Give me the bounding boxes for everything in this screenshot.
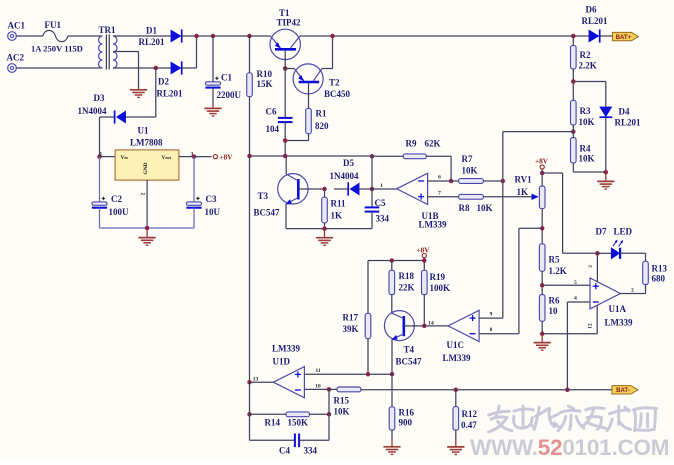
label AC2 xyxy=(7,52,25,62)
wire D2 cathode up to top rail xyxy=(196,36,198,68)
pin 1 xyxy=(99,151,102,157)
wire AC2 to TR1 xyxy=(16,67,102,69)
wire R9 right xyxy=(426,155,451,157)
junction (T3 base node) xyxy=(322,187,327,192)
svg-text:R3: R3 xyxy=(580,106,591,116)
label U1 xyxy=(138,125,149,135)
svg-text:R8: R8 xyxy=(459,203,470,213)
wire D6 to BAT+ xyxy=(601,35,613,37)
label R11 xyxy=(331,199,347,209)
label RL201 xyxy=(582,16,609,26)
wire down to D3 xyxy=(155,68,157,117)
pin 2 xyxy=(631,287,634,293)
svg-text:T3: T3 xyxy=(258,191,269,201)
junction (T4 base / U1C out) xyxy=(422,324,427,329)
wire R11 bottom xyxy=(324,223,326,229)
svg-text:BC450: BC450 xyxy=(324,89,351,99)
wire T4 base xyxy=(404,325,425,327)
wire T3 emitter down xyxy=(285,204,287,229)
resistor R15 xyxy=(337,387,361,392)
label 1K xyxy=(517,187,529,197)
wire center tap down to ground xyxy=(138,52,140,89)
wire T4 emitter down xyxy=(391,339,393,374)
transistor T4 base bar xyxy=(402,316,405,336)
label R7 xyxy=(462,154,473,164)
junction (R9 tap on 8V rail) xyxy=(370,154,375,159)
wire U1B in+ (pin7) xyxy=(428,196,459,198)
junction (BAT- node) xyxy=(565,388,570,393)
pin 11 xyxy=(315,368,320,374)
wire down to C3 xyxy=(193,157,195,203)
pin 14 xyxy=(428,320,434,326)
svg-text:LM339: LM339 xyxy=(605,318,633,328)
wire C2 to gnd rail xyxy=(99,208,101,229)
label BC547 xyxy=(396,357,423,367)
label R12 xyxy=(462,409,478,419)
label R14 xyxy=(265,417,281,427)
resistor R10 xyxy=(247,73,253,97)
svg-text:R7: R7 xyxy=(462,154,473,164)
label 334 xyxy=(376,214,390,224)
label T2 xyxy=(329,78,340,88)
label 10 xyxy=(549,306,559,316)
label U1C xyxy=(447,340,465,350)
junction (U1 output node) xyxy=(192,154,197,159)
svg-text:1: 1 xyxy=(99,151,102,157)
wire down to R17 xyxy=(367,261,369,314)
label FU1 xyxy=(45,20,62,30)
junction (D2 to top rail) xyxy=(194,34,199,39)
resistor R1 xyxy=(306,108,312,133)
junction (R18 top) xyxy=(390,258,395,263)
svg-text:62K: 62K xyxy=(425,139,441,149)
label R16 xyxy=(399,407,415,417)
junction (U1 ground) xyxy=(145,226,150,231)
wire U1D in+ (pin11) to T4 emitter xyxy=(305,373,392,375)
ground (T3/R11/C5) xyxy=(316,229,333,245)
wire R13 top xyxy=(645,253,647,261)
svg-text:1N4004: 1N4004 xyxy=(330,171,359,181)
wire T1 base down xyxy=(284,51,286,69)
wire supply node to LED xyxy=(563,252,598,254)
svg-text:LM339: LM339 xyxy=(419,219,447,229)
svg-text:R9: R9 xyxy=(406,139,417,149)
label T3 xyxy=(258,191,269,201)
wire R4 to ground xyxy=(573,171,606,173)
label U1D xyxy=(273,356,291,366)
svg-text:10K: 10K xyxy=(462,166,478,176)
wire R15 left node down xyxy=(328,389,330,440)
wire divider sense bus xyxy=(502,132,504,319)
wire RV1 bottom left xyxy=(519,227,542,229)
label C4 xyxy=(279,445,290,455)
label 62K xyxy=(425,139,441,149)
svg-text:1: 1 xyxy=(380,183,383,189)
wire to +8V label xyxy=(194,156,211,158)
wire T3 emitter ground rail xyxy=(286,228,372,230)
wire R5 to R6 xyxy=(541,271,543,294)
label TR1 xyxy=(99,25,117,35)
svg-text:+8V: +8V xyxy=(220,153,234,161)
resistor R13 xyxy=(643,261,649,284)
label 680 xyxy=(652,273,666,283)
capacitor C5 334 xyxy=(365,207,380,211)
wire AC1 to FU1 xyxy=(16,35,42,37)
ground (U1/C2/C3) xyxy=(139,229,156,245)
op-amp U1B LM339 xyxy=(397,173,428,204)
label 10K xyxy=(579,117,595,127)
svg-text:RV1: RV1 xyxy=(515,174,533,184)
pin 10 xyxy=(315,383,321,389)
svg-text:15K: 15K xyxy=(257,79,273,89)
svg-text:R1: R1 xyxy=(316,109,327,119)
svg-text:U1D: U1D xyxy=(273,356,291,366)
wire to R15 xyxy=(329,388,337,390)
junction (R19 top) xyxy=(422,258,427,263)
wire divider to U1A in+ xyxy=(542,284,590,286)
label LM339 xyxy=(605,318,633,328)
wire R8 to RV1 wiper with arrow xyxy=(483,194,538,200)
transistor T2 emitter lead xyxy=(294,69,304,82)
junction (C1 on top rail) xyxy=(211,34,216,39)
wire 8V rail to R9 xyxy=(372,155,403,157)
label LM339 xyxy=(443,353,471,363)
svg-text:1A 250V 115D: 1A 250V 115D xyxy=(31,44,83,54)
svg-text:LED: LED xyxy=(614,226,633,236)
label C1 xyxy=(221,72,232,82)
pin 13 xyxy=(253,376,259,382)
label LM339 xyxy=(272,343,300,353)
wire to U1 Vin xyxy=(100,156,116,158)
wire T3 collector up xyxy=(285,156,287,174)
wire top rail T1 to D6 xyxy=(300,35,589,37)
label 2.2K xyxy=(579,60,597,70)
svg-text:D6: D6 xyxy=(586,4,597,14)
wire C6 to 8V rail xyxy=(284,122,286,156)
resistor R3 xyxy=(571,100,577,125)
wire C4 left xyxy=(250,439,295,441)
wire U1D in- (pin10) xyxy=(305,388,329,390)
label C3 xyxy=(206,194,217,204)
wire U1 GND pin down xyxy=(146,180,148,228)
junction (RV1 top node) xyxy=(540,171,545,176)
svg-text:TIP42: TIP42 xyxy=(277,17,302,27)
label R18 xyxy=(399,271,415,281)
svg-text:100K: 100K xyxy=(430,283,451,293)
label RL201 xyxy=(615,118,642,128)
wire C3 to gnd rail xyxy=(193,208,195,229)
wire R16 bottom xyxy=(391,430,393,439)
label 150K xyxy=(288,417,309,427)
svg-text:TR1: TR1 xyxy=(99,25,117,35)
+8V net label (RV1) xyxy=(535,157,549,169)
svg-text:0.47: 0.47 xyxy=(461,420,477,430)
svg-text:1K: 1K xyxy=(331,210,343,220)
label R1 xyxy=(316,109,327,119)
transistor T2 base bar xyxy=(299,81,320,84)
svg-text:R11: R11 xyxy=(331,199,347,209)
svg-text:9: 9 xyxy=(490,311,493,317)
label 2200U xyxy=(217,90,242,100)
label 10U xyxy=(205,207,221,217)
transformer TR1 secondary winding xyxy=(113,36,117,68)
svg-text:BAT+: BAT+ xyxy=(616,35,632,41)
junction (T4 emitter node) xyxy=(390,372,395,377)
label U1A xyxy=(609,304,627,314)
wire U1A Vcc (pin3) xyxy=(596,253,598,282)
junction (T3 collector on 8V rail) xyxy=(283,154,288,159)
junction (R14/C4 right node) xyxy=(327,412,332,417)
svg-text:2200U: 2200U xyxy=(217,90,242,100)
resistor R7 xyxy=(459,179,484,184)
junction (U1A Vcc / LED anode) xyxy=(595,251,600,256)
svg-text:10K: 10K xyxy=(579,117,595,127)
junction (RV1 bottom / U1C in-) xyxy=(540,226,545,231)
label R5 xyxy=(549,254,560,264)
svg-text:R19: R19 xyxy=(430,272,446,282)
svg-text:R15: R15 xyxy=(334,395,350,405)
svg-text:D3: D3 xyxy=(94,93,105,103)
svg-text:T2: T2 xyxy=(329,78,340,88)
ground (R16) xyxy=(383,438,400,454)
label RL201 xyxy=(139,37,166,47)
label 10K xyxy=(334,406,350,416)
resistor R14 xyxy=(286,412,310,417)
svg-text:100U: 100U xyxy=(109,207,130,217)
label T4 xyxy=(404,344,415,354)
wire T2 collector to top rail xyxy=(332,36,334,69)
label D5 xyxy=(343,158,354,168)
svg-text:R10: R10 xyxy=(257,69,273,79)
label R2 xyxy=(580,50,591,60)
svg-text:C1: C1 xyxy=(221,72,232,82)
wire +8V to RV1 xyxy=(541,169,543,186)
label C2 xyxy=(111,194,122,204)
svg-text:C5: C5 xyxy=(375,198,386,208)
label RV1 xyxy=(515,174,533,184)
wire U1A gnd (pin12) xyxy=(596,306,598,334)
label 100U xyxy=(109,207,130,217)
label R13 xyxy=(652,263,668,273)
transistor T2 BC450 body xyxy=(293,64,323,94)
label 820 xyxy=(315,121,329,131)
transformer TR1 primary winding xyxy=(99,36,103,68)
wire R4 bottom xyxy=(572,163,574,172)
resistor R11 xyxy=(322,197,328,223)
wire U1D output xyxy=(250,381,274,383)
label C6 xyxy=(266,106,277,116)
svg-text:R2: R2 xyxy=(580,50,591,60)
svg-text:334: 334 xyxy=(304,445,318,455)
wire U1C in- (pin8) xyxy=(479,333,519,335)
label R15 xyxy=(334,395,350,405)
svg-text:12: 12 xyxy=(588,323,594,329)
svg-text:RL201: RL201 xyxy=(157,89,184,99)
svg-text:LM339: LM339 xyxy=(272,343,300,353)
pin 8 xyxy=(490,327,493,333)
resistor R4 xyxy=(571,138,577,163)
transistor T1 collector lead xyxy=(291,36,300,48)
wire R6 bottom xyxy=(541,321,543,334)
wire down to R16 xyxy=(391,374,393,407)
wire to D7 anode xyxy=(597,252,611,254)
label R17 xyxy=(343,312,359,322)
resistor R18 xyxy=(389,270,395,294)
wire R17 bottom xyxy=(367,339,369,375)
resistor R6 xyxy=(539,295,545,322)
svg-text:334: 334 xyxy=(376,214,390,224)
wire R9 down to in- xyxy=(450,156,452,181)
capacitor C4 334 xyxy=(295,434,299,448)
svg-text:C3: C3 xyxy=(206,194,217,204)
junction (R7/divider node) xyxy=(501,179,506,184)
label 10K xyxy=(579,154,595,164)
ground (R6) xyxy=(534,334,551,350)
svg-text:C2: C2 xyxy=(111,194,122,204)
junction (R10 bottom) xyxy=(247,154,252,159)
wire R1 to C6 node xyxy=(285,140,308,142)
wire +8V to R19 xyxy=(423,258,425,271)
pin 4 xyxy=(574,296,577,302)
wire top rail to R10 xyxy=(249,36,251,73)
junction (U1 input node) xyxy=(97,154,102,159)
junction (R15 left node) xyxy=(327,387,332,392)
label 900 xyxy=(399,417,413,427)
diode D4 RL201 xyxy=(599,107,612,117)
pin 7 xyxy=(438,190,441,196)
fuse FU1 xyxy=(43,30,68,41)
wire top rail to C1 xyxy=(212,36,214,83)
wire in- down to BAT- rail xyxy=(566,302,568,390)
wire TR1 secondary top to D1 xyxy=(113,35,171,37)
junction (R2/R3/D4 top) xyxy=(571,79,576,84)
wire FU1 to TR1 xyxy=(68,35,103,37)
svg-text:U1A: U1A xyxy=(609,304,627,314)
transistor T1 emitter lead xyxy=(270,36,280,49)
wire D3 cathode xyxy=(100,116,115,118)
svg-text:D7: D7 xyxy=(596,226,607,236)
pin 3 xyxy=(588,265,594,268)
wire R12 top xyxy=(455,390,457,407)
junction (U1B output node) xyxy=(370,187,375,192)
wire T3 base to R11/D5 xyxy=(298,188,324,190)
svg-text:RL201: RL201 xyxy=(582,16,609,26)
wire U1C in+ (pin9) xyxy=(479,317,503,319)
label 15K xyxy=(257,79,273,89)
resistor R5 xyxy=(539,244,545,271)
wire +8V rail to R17/R18 xyxy=(368,260,424,262)
svg-text:GND: GND xyxy=(143,162,149,174)
label 334 xyxy=(304,445,318,455)
svg-text:3: 3 xyxy=(588,265,594,268)
svg-text:820: 820 xyxy=(315,121,329,131)
transistor T2 collector lead xyxy=(314,69,322,81)
svg-text:R14: R14 xyxy=(265,417,281,427)
wire to D4 top xyxy=(573,81,606,83)
resistor R2 xyxy=(571,45,577,69)
wire R2 to R3 xyxy=(572,69,574,100)
svg-text:2.2K: 2.2K xyxy=(579,60,597,70)
diode D5 1N4004 xyxy=(348,182,359,195)
svg-text:LM339: LM339 xyxy=(443,353,471,363)
svg-text:2: 2 xyxy=(140,192,146,195)
svg-text:680: 680 xyxy=(652,273,666,283)
junction (R14 left) xyxy=(247,412,252,417)
wire D4 anode xyxy=(605,82,607,107)
svg-text:900: 900 xyxy=(399,417,413,427)
wire C1 to ground xyxy=(212,87,214,104)
svg-text:R16: R16 xyxy=(399,407,415,417)
label D1 xyxy=(146,26,157,36)
label AC1 xyxy=(8,20,26,30)
wire TR1 center tap xyxy=(113,51,139,53)
junction (U1D output) xyxy=(247,380,252,385)
label LM339 xyxy=(419,219,447,229)
svg-text:BC547: BC547 xyxy=(254,207,281,217)
junction (R10 on top rail) xyxy=(247,34,252,39)
svg-text:U1: U1 xyxy=(138,125,149,135)
wire R18 to T4 collector xyxy=(391,295,393,314)
label D6 xyxy=(586,4,597,14)
svg-text:WWW.520101.COM: WWW.520101.COM xyxy=(470,435,670,460)
diode D3 1N4004 xyxy=(115,110,126,123)
wire U1A in- (pin4) xyxy=(567,301,590,303)
svg-text:D1: D1 xyxy=(146,26,157,36)
svg-text:R4: R4 xyxy=(580,143,591,153)
terminal AC2 xyxy=(8,64,17,73)
diode D6 RL201 xyxy=(589,29,600,42)
wire RV1 to R5 xyxy=(541,209,543,244)
pin 12 xyxy=(588,323,594,329)
wire to R7 xyxy=(451,180,459,182)
wire to T2 emitter xyxy=(285,68,294,70)
wire R19 to T4 base node xyxy=(423,295,425,326)
wire R18 top xyxy=(391,261,393,271)
wire U1B output (pin1) xyxy=(372,188,397,190)
capacitor C3 10U xyxy=(186,197,201,208)
transistor T4 BC547 body xyxy=(384,311,414,341)
transistor T1 base bar xyxy=(275,48,296,51)
wire R14 right xyxy=(310,413,330,415)
svg-text:13: 13 xyxy=(253,376,259,382)
svg-text:10: 10 xyxy=(549,306,559,316)
wire R1 bottom xyxy=(308,134,310,141)
label R10 xyxy=(257,69,273,79)
op-amp U1C LM339 xyxy=(448,310,479,341)
svg-text:FU1: FU1 xyxy=(45,20,62,30)
wire D7 cathode to R13 xyxy=(621,252,646,254)
wire to R2 xyxy=(572,36,574,45)
svg-text:+8V: +8V xyxy=(417,246,431,254)
wire to R14 xyxy=(250,413,287,415)
junction (R17 bottom) xyxy=(366,372,371,377)
ground (R12) xyxy=(447,438,464,454)
label 10K xyxy=(462,166,478,176)
wire D5 anode to U1B out xyxy=(359,188,372,190)
+8V net label (T4 stage) xyxy=(417,246,431,257)
svg-text:R18: R18 xyxy=(399,271,415,281)
label R6 xyxy=(549,295,560,305)
op-amp U1D LM339 xyxy=(273,367,304,398)
resistor R17 xyxy=(365,313,371,338)
wire R13 bottom to U1A out xyxy=(645,285,647,294)
svg-text:104: 104 xyxy=(266,124,280,134)
svg-text:BC547: BC547 xyxy=(396,357,423,367)
wire R11 top xyxy=(324,189,326,197)
wire D2 cathode right xyxy=(182,67,197,69)
label 104 xyxy=(266,124,280,134)
svg-text:39K: 39K xyxy=(343,324,359,334)
